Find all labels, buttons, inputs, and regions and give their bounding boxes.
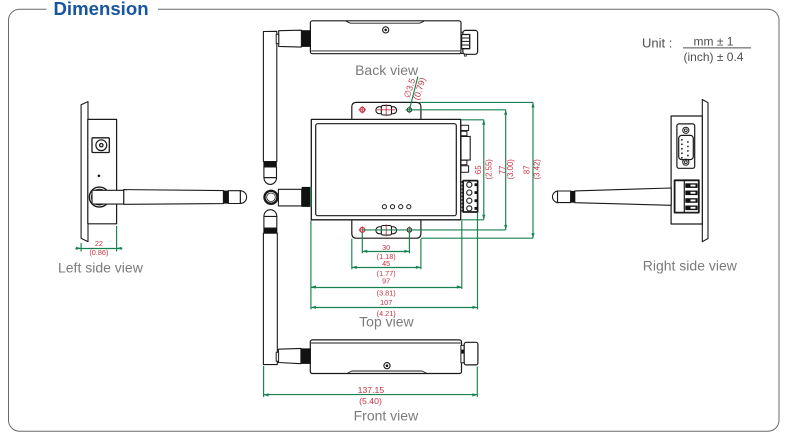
svg-text:Front view: Front view: [354, 407, 419, 423]
dia 3.5 leader: [409, 77, 418, 110]
flange holes bottom: [359, 224, 413, 236]
svg-text:(2.55): (2.55): [484, 159, 493, 180]
svg-text:107: 107: [380, 298, 392, 307]
antenna hinge circle: [265, 191, 278, 204]
bottom mounting flange: [352, 220, 421, 238]
svg-text:Right side view: Right side view: [643, 257, 738, 273]
right antenna: [575, 188, 671, 205]
dim 45: [351, 239, 353, 269]
svg-text:87: 87: [523, 165, 532, 174]
svg-text:(5.40): (5.40): [359, 396, 382, 406]
dim 77: [406, 109, 506, 111]
top mounting flange: [352, 102, 421, 119]
back antenna bar (folded down): [263, 31, 276, 161]
svg-text:Left side view: Left side view: [58, 260, 144, 276]
dim 137.15: [263, 366, 265, 397]
back antenna connector: [301, 30, 311, 47]
front right stub + end piece: [461, 345, 464, 362]
back body: [310, 21, 461, 54]
front screw: [384, 363, 390, 369]
DB9 stub right: [461, 125, 469, 130]
svg-text:(3.81): (3.81): [377, 288, 396, 297]
dim 107: [477, 213, 479, 310]
dim 87: [419, 101, 533, 103]
flange holes top: [359, 104, 413, 116]
right body: [671, 116, 702, 224]
left body: [88, 119, 117, 223]
svg-text:Back view: Back view: [355, 62, 419, 78]
front body: [310, 340, 461, 374]
svg-text:(3.42): (3.42): [533, 159, 542, 180]
svg-text:(4.21): (4.21): [377, 309, 396, 318]
back screw: [383, 27, 389, 33]
svg-text:mm ± 1: mm ± 1: [694, 35, 734, 49]
terminal block: [461, 181, 463, 212]
svg-text:Dimension: Dimension: [54, 0, 149, 19]
dim 30: [361, 232, 363, 253]
svg-text:(3.00): (3.00): [506, 159, 515, 180]
DIP switch: [675, 180, 699, 212]
svg-text:137.15: 137.15: [358, 385, 385, 395]
dim 97: [310, 187, 312, 207]
left antenna: [92, 190, 124, 204]
svg-text:30: 30: [382, 243, 390, 252]
svg-text:(0.86): (0.86): [89, 248, 108, 257]
top view body: [311, 119, 460, 219]
right mounting plate: [702, 100, 708, 242]
dim 65: [462, 119, 484, 121]
dim 22: [80, 243, 82, 252]
led dot: [98, 175, 101, 178]
antenna hinge: [89, 187, 109, 207]
front antenna bar (folded up): [263, 233, 277, 364]
back right stub + DB9 plate: [461, 32, 465, 53]
svg-text:Unit :: Unit :: [642, 36, 672, 51]
top antenna shaft: [278, 189, 301, 206]
svg-text:(inch) ± 0.4: (inch) ± 0.4: [684, 50, 744, 64]
power jack: [92, 138, 109, 153]
svg-text:65: 65: [474, 165, 483, 174]
svg-text:45: 45: [382, 259, 390, 268]
DB9 connector: [677, 124, 695, 168]
LEDs: [382, 205, 386, 209]
svg-text:97: 97: [382, 276, 390, 285]
front antenna connector: [301, 348, 311, 364]
svg-text:22: 22: [95, 239, 103, 248]
left mounting plate: [81, 102, 88, 242]
